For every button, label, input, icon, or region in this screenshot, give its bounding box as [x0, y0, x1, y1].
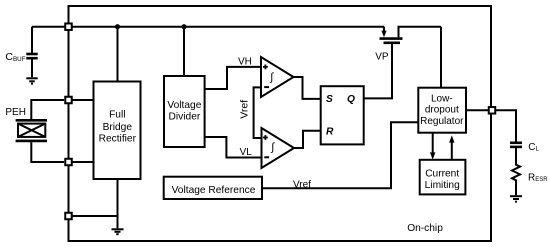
low-dropout regulator box: [418, 88, 466, 133]
arrowhead up (CL to LDO): [449, 135, 454, 142]
pin P2: [65, 97, 72, 104]
wire: VL tap: [205, 137, 262, 158]
wire: top rail from pin to MOSFET: [32, 26, 384, 28]
comparator U1 (upper): [261, 57, 294, 97]
ground (rectifier): [112, 229, 124, 234]
svg-text:S: S: [326, 94, 333, 105]
svg-text:Bridge: Bridge: [103, 122, 133, 133]
pin P3: [65, 159, 72, 166]
wire: pin2 to rectifier: [69, 99, 94, 101]
svg-text:Divider: Divider: [169, 112, 201, 123]
ground (load): [510, 196, 522, 202]
pins (chip boundary squares): [65, 23, 495, 219]
pin P4: [65, 213, 72, 220]
wire: U1 output to S: [294, 77, 321, 99]
svg-text:Voltage Reference: Voltage Reference: [172, 185, 256, 196]
svg-text:RESR: RESR: [528, 172, 548, 183]
svg-text:PEH: PEH: [5, 107, 26, 118]
junction dot rectifier top: [115, 24, 120, 29]
wire: LDO to current limiting (down): [432, 133, 434, 153]
transistor M1 (PMOS): [380, 27, 442, 43]
comparator U2 minus: [264, 156, 269, 158]
wire: Vref to LDO: [262, 122, 418, 188]
svg-text:R: R: [326, 127, 334, 138]
svg-text:Full: Full: [109, 109, 125, 120]
wire: current limiting to LDO (up): [451, 143, 453, 161]
node Vref line between comparators: [254, 87, 262, 138]
svg-text:CBUF: CBUF: [5, 51, 25, 63]
svg-text:Current: Current: [425, 169, 459, 180]
arrowhead down (LDO to CL): [430, 152, 435, 159]
svg-text:CL: CL: [528, 142, 539, 153]
svg-text:On-chip: On-chip: [407, 223, 443, 234]
PEH transducer: [16, 100, 64, 162]
comparator U1 plus: [263, 65, 268, 70]
wire: pin5 to load: [492, 110, 517, 141]
wire: LDO output to pin5: [466, 109, 492, 111]
comparator U2 (lower): [262, 128, 295, 168]
voltage reference box: [164, 177, 262, 199]
wire: FBR top drop: [117, 27, 119, 82]
svg-text:Q: Q: [347, 94, 355, 105]
svg-text:Regulator: Regulator: [420, 116, 464, 127]
pin P5: [489, 107, 496, 114]
wire: rectifier bottom to ground: [117, 179, 119, 228]
voltage divider box: [164, 76, 205, 147]
wire: rail down to LDO: [440, 27, 442, 88]
svg-text:VP: VP: [375, 51, 389, 62]
ground (CBUF): [26, 78, 37, 83]
comparator U1 minus: [264, 86, 269, 88]
svg-text:dropout: dropout: [425, 105, 459, 116]
pin P1: [65, 23, 72, 30]
wire: voltage divider top drop: [183, 27, 185, 76]
wire: Q to gate: [364, 44, 392, 99]
junction dot divider top: [181, 24, 186, 29]
svg-text:Limiting: Limiting: [425, 180, 460, 191]
svg-text:Low-: Low-: [431, 93, 453, 104]
comparator U2 plus: [263, 135, 268, 140]
svg-text:Vref: Vref: [239, 100, 251, 119]
svg-text:Voltage: Voltage: [167, 100, 201, 111]
full bridge rectifier box: [94, 82, 141, 180]
svg-text:VH: VH: [238, 57, 252, 68]
wire: pin3 to rectifier: [69, 161, 94, 163]
current limiting box: [420, 160, 466, 195]
wire: U2 output to R: [294, 131, 321, 148]
svg-text:Vref: Vref: [293, 179, 311, 190]
resistor RESR: [512, 148, 520, 195]
arrowhead M1 gate-in: [381, 31, 386, 38]
svg-text:Rectifier: Rectifier: [99, 134, 137, 145]
wire: VH tap: [205, 67, 261, 89]
on-chip boundary: [69, 6, 492, 241]
capacitor CBUF: [26, 27, 37, 78]
SR latch U3: [321, 86, 364, 144]
svg-text:VL: VL: [240, 147, 253, 158]
wire: pin4 to ground node: [69, 215, 118, 217]
capacitor CL: [510, 143, 522, 147]
